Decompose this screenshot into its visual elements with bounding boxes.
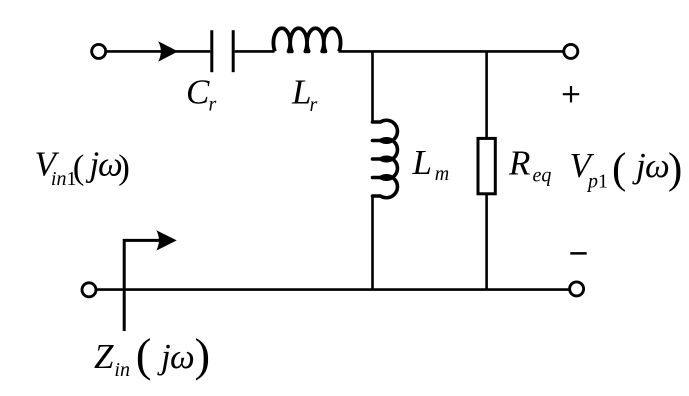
svg-text:ω: ω (170, 337, 195, 376)
svg-text:): ) (668, 146, 682, 193)
svg-text:): ) (195, 330, 211, 382)
svg-text:ω: ω (645, 146, 670, 185)
svg-text:): ) (118, 147, 130, 186)
svg-text:j: j (157, 337, 171, 376)
svg-text:(: ( (73, 147, 85, 186)
svg-text:Z: Z (94, 337, 114, 376)
svg-text:r: r (209, 94, 217, 116)
svg-text:(: ( (612, 146, 626, 193)
svg-text:r: r (310, 94, 318, 116)
svg-text:eq: eq (533, 165, 552, 187)
svg-text:m: m (435, 163, 449, 185)
svg-text:L: L (291, 73, 311, 112)
svg-text:R: R (508, 144, 530, 183)
svg-text:j: j (632, 146, 646, 185)
svg-text:L: L (412, 143, 432, 182)
svg-text:C: C (186, 73, 210, 112)
svg-text:(: ( (136, 330, 152, 382)
svg-text:in: in (114, 359, 130, 381)
svg-text:p1: p1 (586, 171, 608, 193)
